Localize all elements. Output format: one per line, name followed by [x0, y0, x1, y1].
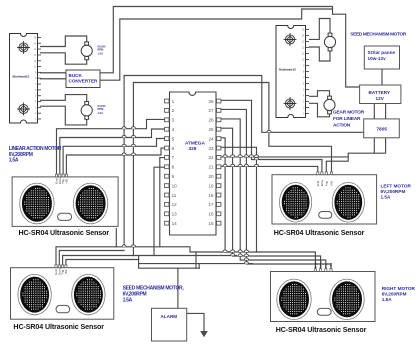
sensor S1 (front-left HC-SR04) board — [12, 177, 118, 227]
wire: ATmega pin3 to sensor S1 pin1 — [57, 119, 165, 176]
wire: left driver pin13 to motor M1 bottom terminal — [41, 53, 87, 64]
svg-text:LEFT MOTOR: LEFT MOTOR — [381, 184, 412, 189]
svg-text:8: 8 — [172, 165, 175, 170]
svg-text:22: 22 — [208, 155, 214, 160]
wire: ATmega pin28 to sensor S3 Trigger pin — [218, 100, 322, 174]
right driver top mounting crosshair — [284, 33, 297, 46]
wire: bottom bus line 2 — [133, 255, 236, 257]
svg-text:11: 11 — [172, 193, 177, 198]
svg-text:27: 27 — [208, 108, 214, 113]
sensor S4 (rear-right HC-SR04) right transducer — [330, 279, 364, 319]
svg-text:Trig: Trig — [324, 263, 328, 268]
left driver bottom mounting crosshair — [17, 103, 30, 116]
wire: bottom bus line 1 — [116, 229, 230, 253]
wire: solar panel to battery — [381, 69, 383, 85]
wire: buck rail 2 down left bus — [132, 83, 134, 256]
wire: ATmega pin22 long run to 7805 drop — [218, 156, 348, 158]
svg-text:21: 21 — [208, 165, 214, 170]
svg-text:1.5A: 1.5A — [9, 157, 19, 163]
wire: bottom run to alarm column — [139, 264, 200, 269]
svg-text:12: 12 — [172, 202, 178, 207]
svg-text:20: 20 — [208, 174, 214, 179]
wire: bus to sensor S2 pin1 — [56, 247, 116, 268]
svg-text:24: 24 — [208, 136, 214, 141]
wire: drop from bus step to alarm run — [195, 252, 197, 268]
svg-text:Gnd: Gnd — [313, 262, 317, 268]
wire: ATmega pin21 to sensor S3 Gnd pin — [218, 166, 318, 174]
svg-text:+5V: +5V — [64, 270, 68, 275]
sensor S1 (front-left HC-SR04) right transducer — [73, 183, 107, 224]
wire: ATmega pin7 down to bottom bus — [160, 158, 165, 247]
svg-text:9: 9 — [172, 174, 175, 179]
svg-text:5: 5 — [172, 136, 175, 141]
svg-text:1.5A: 1.5A — [381, 195, 392, 200]
svg-text:BATTERY: BATTERY — [369, 90, 391, 95]
wire: battery to 7805 input — [373, 104, 375, 119]
svg-text:HC-SR04 Ultrasonic Sensor: HC-SR04 Ultrasonic Sensor — [19, 229, 110, 237]
svg-text:GEAR MOTOR: GEAR MOTOR — [333, 110, 365, 116]
sensor S2 (rear-left HC-SR04) crystal — [56, 305, 70, 312]
sensor S1 (front-left HC-SR04) header pins with labels — [55, 174, 57, 177]
wire: bus to sensor S2 pin3 — [63, 256, 134, 268]
svg-text:6: 6 — [172, 146, 175, 151]
wire: ATmega pin4 to sensor S1 pin2 — [60, 129, 165, 177]
wire: bus to sensor S2 pin2 — [59, 251, 124, 268]
sensor S3 (front-right HC-SR04) right transducer — [332, 183, 364, 223]
svg-text:23: 23 — [208, 146, 214, 151]
solar panel box — [364, 46, 399, 69]
svg-text:7805: 7805 — [376, 127, 387, 133]
wire: buck rail down left bus — [123, 76, 125, 247]
svg-text:ATMEGA: ATMEGA — [185, 141, 206, 146]
sensor S2 (rear-left HC-SR04) board — [11, 268, 114, 320]
wire: feed to alarm box — [177, 268, 179, 308]
wire: 7805 ground loop — [374, 138, 385, 153]
svg-text:Multiwatt15: Multiwatt15 — [279, 68, 296, 72]
svg-text:16: 16 — [208, 212, 214, 217]
wire: top bus from buck converter over top to battery — [100, 7, 360, 88]
svg-text:+5V: +5V — [329, 263, 333, 268]
svg-text:1.5A: 1.5A — [382, 297, 393, 302]
wire: right driver pin12 to seed motor bottom terminal — [310, 47, 331, 61]
wire: ATmega pin6 to sensor S1 pin4 — [66, 148, 164, 177]
svg-text:ACTION: ACTION — [333, 123, 351, 129]
wire: left driver pin8 to buck converter — [41, 78, 67, 80]
alarm box — [152, 308, 187, 341]
svg-text:Trig: Trig — [324, 181, 328, 186]
right driver pins 1-15 — [306, 29, 310, 31]
motor M4 (gear motor for linear action) — [324, 96, 335, 114]
sensor S3 (front-right HC-SR04) crystal — [319, 212, 332, 219]
wire: ATmega pin25 down to sensor S4 pin2 — [218, 128, 321, 271]
svg-text:1.5A: 1.5A — [98, 111, 104, 115]
svg-text:4: 4 — [172, 127, 175, 132]
wire: alarm to ground arrow — [187, 313, 204, 331]
svg-text:RIGHT MOTOR: RIGHT MOTOR — [382, 286, 416, 291]
svg-text:2: 2 — [172, 108, 175, 113]
sensor S1 (front-left HC-SR04) left transducer — [20, 183, 54, 224]
op IC U1: ATmega328 body — [170, 92, 217, 235]
svg-text:SEED MECHANISM MOTOR: SEED MECHANISM MOTOR — [350, 32, 407, 37]
wire: left driver pin3 to motor M2 bottom terminal — [41, 106, 87, 125]
svg-text:6V,200RPM: 6V,200RPM — [381, 189, 406, 194]
7805 regulator box — [364, 119, 400, 138]
svg-text:RPM: RPM — [98, 107, 104, 111]
svg-text:7: 7 — [172, 155, 175, 160]
ATmega328 pins 1-14 (left) and 28-15 (right) — [165, 99, 169, 103]
wire: ATmega pin26 down to sensor S4 pin3 — [218, 119, 326, 272]
svg-text:328: 328 — [189, 146, 197, 151]
right driver bottom mounting crosshair — [284, 97, 297, 110]
wire: battery to 7805 ground — [385, 104, 387, 119]
svg-text:26: 26 — [208, 118, 214, 123]
buck converter box — [66, 70, 100, 88]
wire crossing hop arcs — [122, 127, 271, 264]
svg-text:HC-SR04 Ultrasonic Sensor: HC-SR04 Ultrasonic Sensor — [276, 326, 367, 334]
wire: left driver pin4 to motor M2 top terminal — [41, 95, 87, 102]
svg-text:17: 17 — [208, 202, 214, 207]
sensor S2 (rear-left HC-SR04) left transducer — [18, 274, 51, 314]
svg-text:BUCK: BUCK — [69, 73, 83, 78]
wire: 7805 output to sensor S3 Echo pin — [326, 138, 374, 175]
motor M3 (seed mechanism motor) — [324, 33, 335, 51]
svg-text:10w-12v: 10w-12v — [368, 56, 387, 61]
svg-text:28: 28 — [208, 99, 214, 104]
svg-text:RPM: RPM — [98, 48, 104, 52]
sensor S4 (rear-right HC-SR04) board — [271, 272, 376, 322]
svg-text:Echo: Echo — [319, 261, 323, 268]
svg-text:SOlar panne: SOlar panne — [368, 50, 396, 55]
motor M1 (left gear motor) — [81, 42, 92, 60]
svg-text:18: 18 — [208, 193, 214, 198]
battery box — [360, 85, 401, 104]
svg-text:ALARM: ALARM — [161, 314, 178, 319]
svg-text:6V,200RPM: 6V,200RPM — [382, 292, 407, 297]
sensor S4 (rear-right HC-SR04) crystal — [317, 308, 331, 315]
wire: right driver pin13 to seed motor top terminal — [310, 19, 331, 40]
wire: second top bus from buck converter — [100, 9, 333, 80]
wire: left driver pin14 to motor M1 top terminal — [41, 36, 87, 47]
left driver pins 1-15 — [38, 37, 42, 39]
svg-text:1: 1 — [172, 99, 175, 104]
svg-text:19: 19 — [208, 183, 214, 188]
svg-text:FOR LINEAR: FOR LINEAR — [333, 116, 361, 122]
svg-text:13: 13 — [172, 212, 178, 217]
sensor S2 (rear-left HC-SR04) header pins with labels — [55, 265, 57, 268]
svg-text:HC-SR04 Ultrasonic Sensor: HC-SR04 Ultrasonic Sensor — [274, 229, 365, 237]
sensor S4 (rear-right HC-SR04) left transducer — [277, 279, 311, 319]
wire: ATmega pin8 down to bottom bus 2 — [154, 167, 164, 255]
wire: ATmega pin27 down to sensor S4 pin4 — [218, 109, 331, 271]
svg-text:Echo: Echo — [320, 179, 324, 186]
svg-text:10: 10 — [172, 183, 178, 188]
left Multiwatt15 driver body — [10, 34, 38, 124]
svg-text:CONVERTER: CONVERTER — [69, 79, 99, 84]
svg-text:+5V: +5V — [64, 179, 68, 184]
svg-text:1.5A: 1.5A — [98, 52, 104, 56]
sensor S3 (front-right HC-SR04) left transducer — [280, 183, 312, 223]
svg-text:14: 14 — [172, 221, 178, 226]
wire: bus to sensor S2 pin4 — [66, 260, 139, 268]
wire: left driver pin9 to buck converter — [41, 72, 67, 74]
sensor S3 (front-right HC-SR04) board — [272, 175, 377, 224]
svg-text:Multiwatt15: Multiwatt15 — [13, 74, 30, 78]
svg-text:3: 3 — [172, 118, 175, 123]
wire: bottom bus line 3 — [139, 256, 253, 264]
sensor S1 (front-left HC-SR04) crystal — [58, 213, 72, 220]
right Multiwatt15 driver body — [276, 26, 306, 118]
motor M2 (linear action motor) — [81, 102, 92, 120]
svg-text:12V: 12V — [376, 96, 385, 101]
wire: buck rail 2 to sensor S3 +5V pin — [133, 83, 331, 175]
sensor S3 (front-right HC-SR04) header pins with labels — [317, 172, 319, 175]
left driver top mounting crosshair — [17, 41, 30, 54]
wire: ATmega pin5 to sensor S1 pin3 — [63, 139, 164, 177]
sensor S4 (rear-right HC-SR04) header pins with labels — [314, 269, 316, 272]
svg-text:15: 15 — [208, 221, 214, 226]
svg-text:1.5A: 1.5A — [123, 298, 133, 304]
wire: ATmega pin24 down to sensor S4 pin1 — [218, 138, 316, 272]
svg-text:HC-SR04 Ultrasonic Sensor: HC-SR04 Ultrasonic Sensor — [13, 323, 104, 331]
wire: right driver pin4 to gear motor top terminal — [310, 91, 330, 97]
svg-text:+5V: +5V — [330, 181, 334, 186]
svg-text:25: 25 — [208, 127, 214, 132]
wire: ATmega pin23 down to bottom bus — [218, 147, 257, 252]
sensor S2 (rear-left HC-SR04) right transducer — [72, 274, 105, 314]
wire: buck rail across top of ATmega to 7805 input — [124, 76, 364, 133]
wire: jog at alarm column — [198, 264, 200, 269]
wire: right driver pin3 to gear motor bottom terminal — [310, 103, 330, 117]
